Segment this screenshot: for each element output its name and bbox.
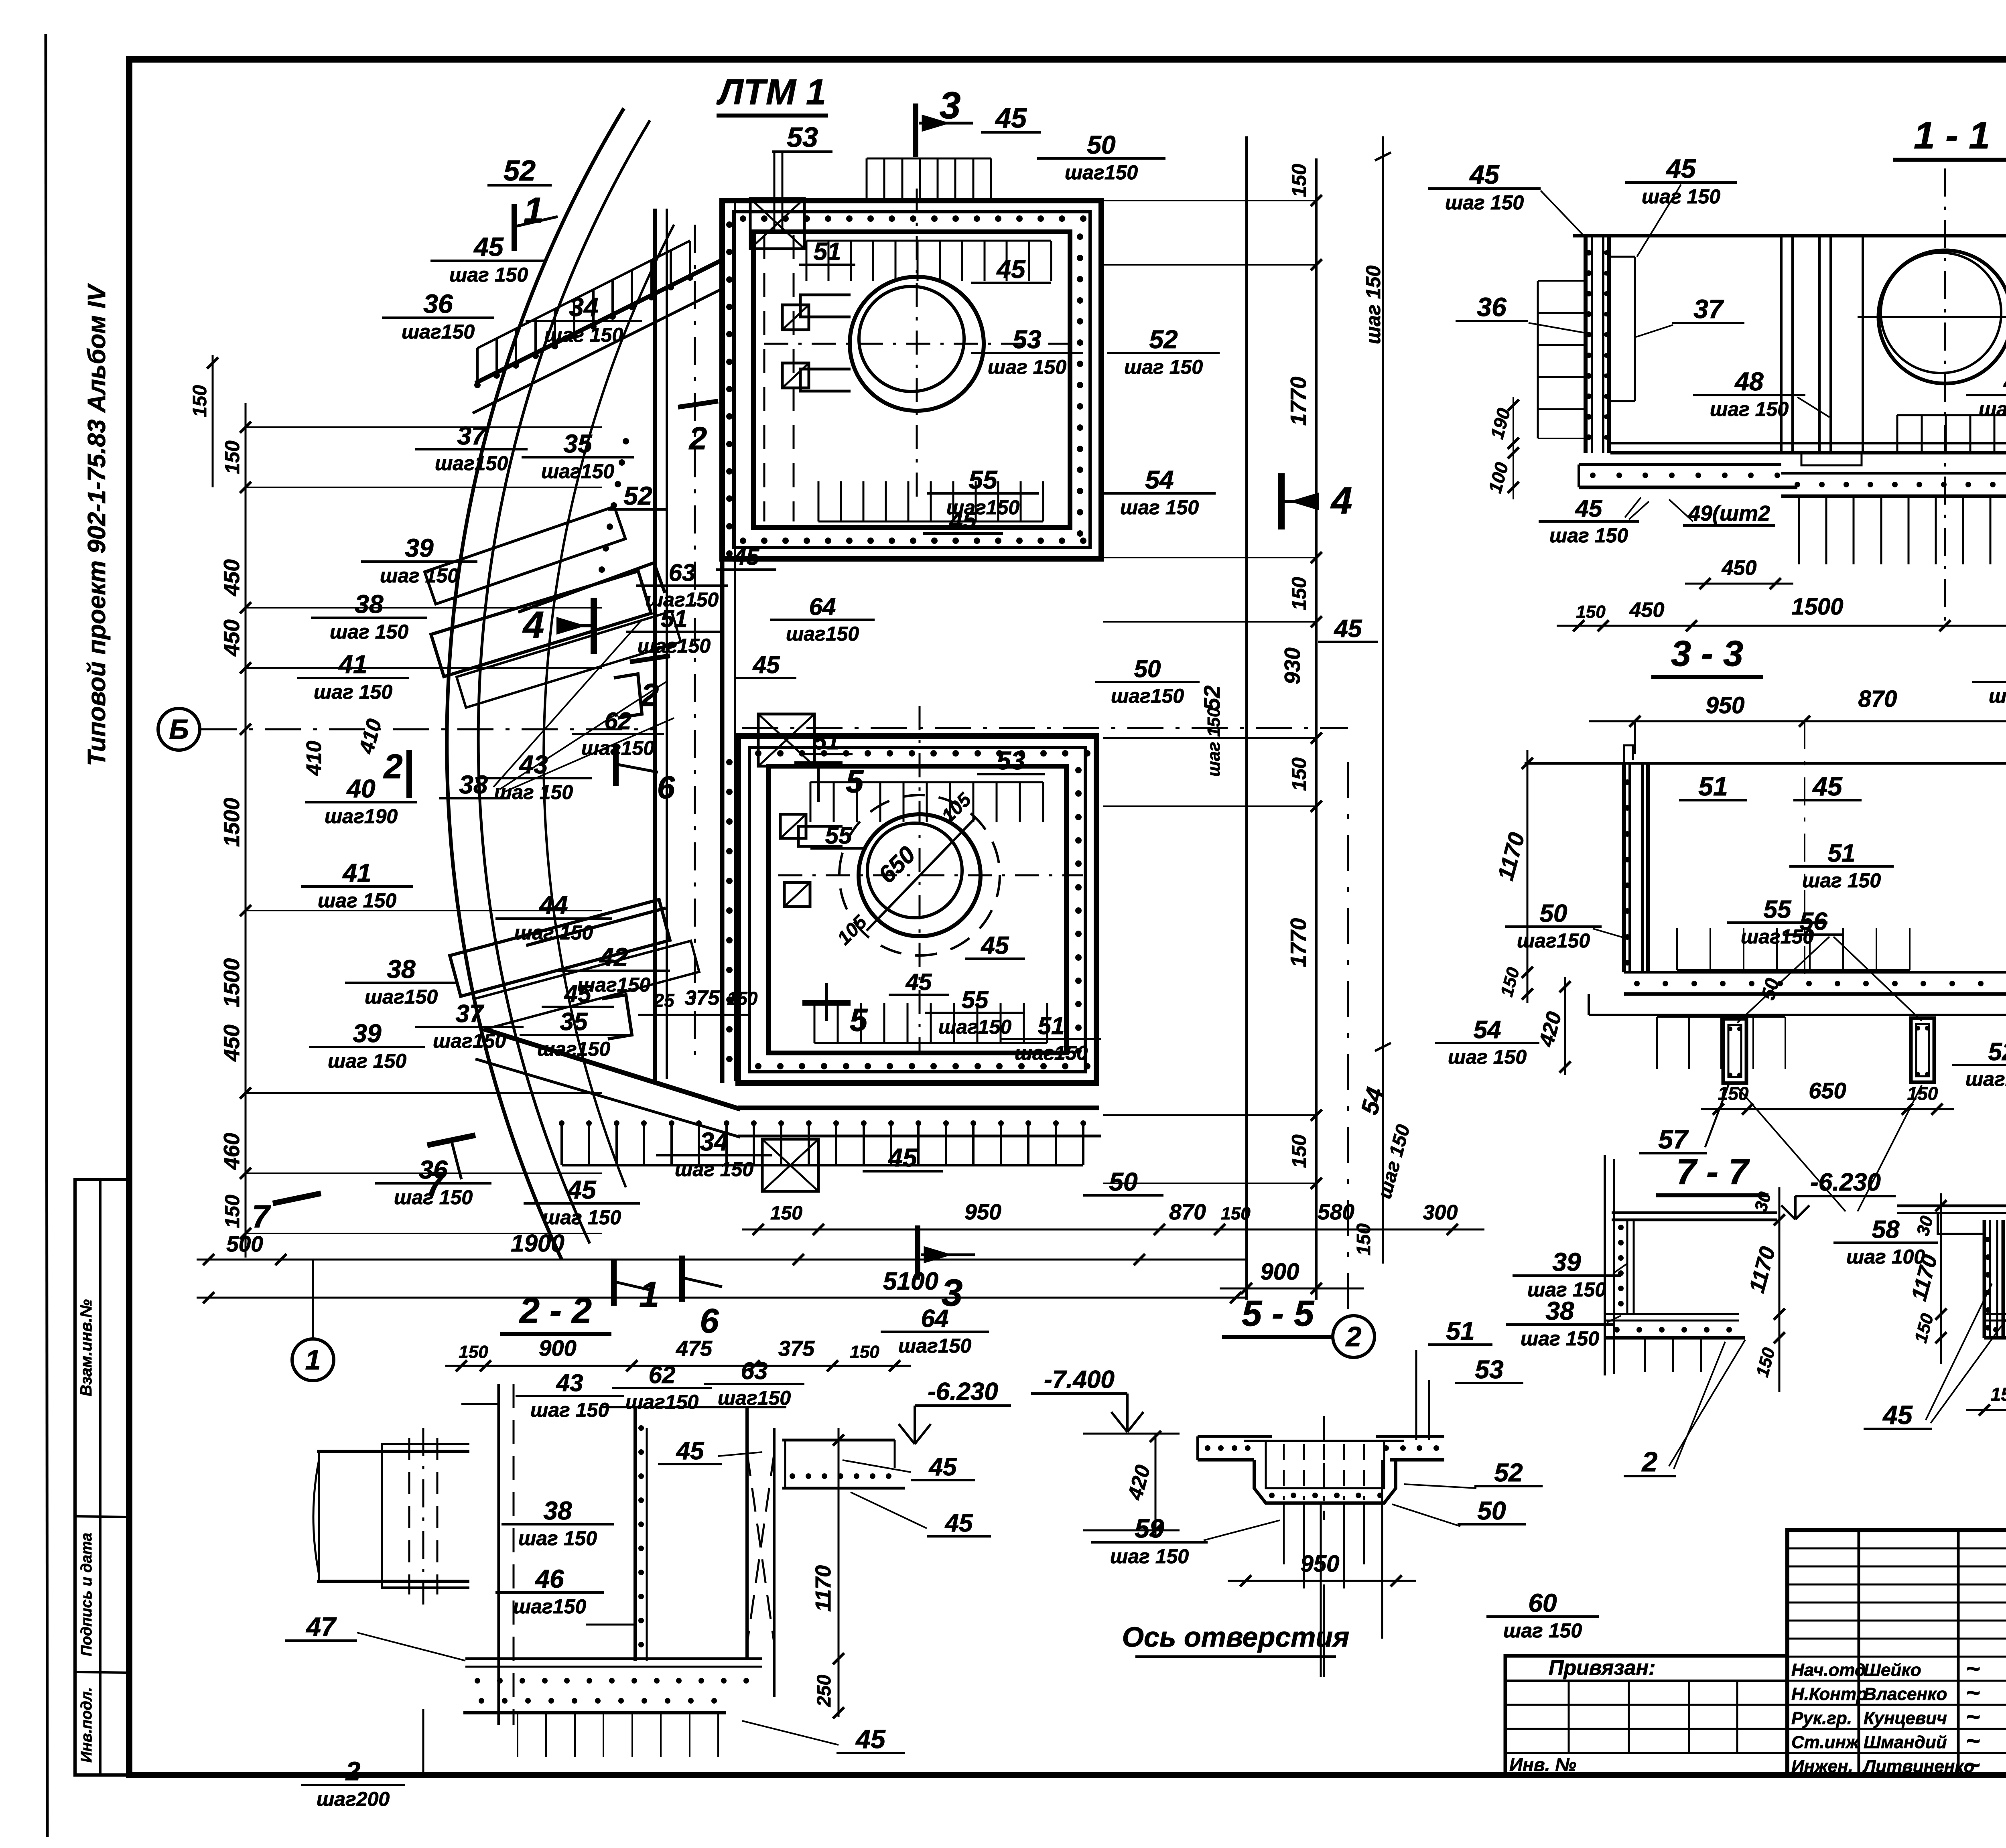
svg-text:150: 150 — [770, 1203, 802, 1224]
section 3-3 bottom slab — [1624, 971, 2006, 974]
svg-text:43: 43 — [518, 750, 548, 779]
plan label 45 upper left — [430, 232, 547, 286]
title block middle table verticals — [1858, 1530, 1860, 1776]
plan label 55 mid — [927, 465, 1039, 519]
section mark 6 mid — [613, 744, 619, 786]
svg-text:410: 410 — [303, 741, 326, 776]
svg-text:45: 45 — [944, 1509, 973, 1537]
svg-text:шаг 150: шаг 150 — [1521, 1327, 1599, 1350]
left dim chain vertical — [245, 403, 247, 1258]
svg-text:45: 45 — [1469, 160, 1500, 189]
plan bottom comb — [562, 1164, 1083, 1166]
plan label 34 bottom — [656, 1127, 772, 1181]
lower chamber diameter 650 line — [867, 818, 975, 931]
svg-text:47: 47 — [2003, 367, 2006, 396]
svg-text:шаг150: шаг150 — [1965, 1068, 2006, 1090]
svg-text:шаг 150: шаг 150 — [1642, 185, 1720, 208]
section 1-1 bottom comb — [1799, 495, 2006, 497]
lower chamber embedded plate 1 — [780, 814, 806, 838]
plan bottom dim chain small — [742, 1229, 1484, 1231]
svg-text:5 - 5: 5 - 5 — [1242, 1294, 1315, 1334]
svg-text:53: 53 — [997, 746, 1025, 775]
svg-text:52: 52 — [623, 481, 652, 510]
svg-text:38: 38 — [355, 590, 384, 619]
svg-text:1500: 1500 — [1791, 594, 1843, 620]
svg-text:6: 6 — [700, 1302, 719, 1340]
svg-text:38: 38 — [387, 955, 416, 984]
lower chamber dashed circle — [839, 795, 1000, 955]
corridor wall dots — [726, 221, 733, 228]
svg-text:шаг 150: шаг 150 — [1362, 266, 1385, 344]
svg-text:46: 46 — [534, 1564, 564, 1593]
slanted wall piece 44 lower — [450, 895, 699, 1033]
plan label 35 left — [522, 429, 634, 483]
svg-text:36: 36 — [1477, 292, 1507, 322]
section mark 2 top — [678, 401, 718, 407]
svg-text:45: 45 — [1334, 615, 1362, 643]
svg-text:150: 150 — [1221, 1204, 1251, 1223]
upper chamber wall line 2 — [733, 212, 1090, 548]
svg-text:500: 500 — [226, 1231, 263, 1256]
section 2-2 top right box — [782, 1439, 895, 1442]
plan label 41 left — [297, 650, 409, 703]
svg-text:25: 25 — [653, 990, 675, 1011]
plan label 52 right — [1107, 325, 1220, 378]
svg-text:~: ~ — [1966, 1703, 1980, 1730]
svg-text:45: 45 — [995, 102, 1027, 134]
svg-text:~: ~ — [1966, 1751, 1980, 1778]
section 3-3 bottom combs — [1677, 969, 1910, 971]
svg-text:1 - 1: 1 - 1 — [1914, 114, 1990, 157]
section 1-1 label 45 шаг150 top far left — [1428, 160, 1541, 214]
curved wall inner arc 2 — [544, 225, 674, 1187]
svg-text:54: 54 — [1145, 465, 1174, 494]
svg-text:900: 900 — [539, 1335, 576, 1361]
section 1-1 bottom slab — [1610, 442, 2006, 444]
svg-text:Шмандий: Шмандий — [1864, 1732, 1947, 1752]
svg-text:шаг190: шаг190 — [325, 805, 398, 828]
svg-text:шаг 150: шаг 150 — [1448, 1046, 1527, 1068]
section 3-3 label 57 — [1639, 1124, 1707, 1154]
svg-text:870: 870 — [1858, 686, 1897, 712]
upper chamber pipe opening inner circle — [859, 286, 964, 392]
plan label 45 top — [981, 102, 1041, 134]
plan label 45 bottom mid — [863, 1143, 943, 1172]
svg-text:34: 34 — [569, 292, 598, 322]
axis Б centerline — [201, 728, 654, 730]
svg-text:53: 53 — [1013, 325, 1041, 354]
lower chamber niche — [798, 826, 843, 846]
section 1-1 label 48 — [1693, 367, 1805, 420]
section 3-3 label 52 — [1952, 1038, 2006, 1090]
svg-text:51: 51 — [661, 605, 688, 632]
axis line 2 dash — [1347, 762, 1349, 1316]
section mark 1 bottom — [611, 1260, 617, 1306]
svg-text:40: 40 — [346, 774, 375, 803]
svg-text:шаг150: шаг150 — [513, 1595, 587, 1618]
svg-text:45: 45 — [564, 980, 592, 1007]
svg-text:2: 2 — [1345, 1321, 1362, 1352]
plan label 38 mid — [439, 770, 508, 799]
svg-text:шаг 150: шаг 150 — [1445, 191, 1524, 214]
svg-text:950: 950 — [964, 1199, 1001, 1224]
upper chamber wall dots — [740, 215, 746, 222]
svg-text:шаг 150: шаг 150 — [1979, 398, 2006, 420]
svg-text:шаг 150: шаг 150 — [1549, 524, 1628, 547]
svg-text:450: 450 — [219, 619, 244, 657]
svg-text:45: 45 — [906, 969, 932, 995]
svg-text:шаг150: шаг150 — [898, 1335, 972, 1357]
section 2-2 bottom slab — [465, 1657, 762, 1660]
section mark 1 topleft — [512, 204, 517, 251]
plan label 51 upper — [799, 238, 855, 266]
section 1-1 base slab center — [1781, 472, 2006, 475]
upper chamber embedded plate 2 — [782, 363, 809, 388]
plan label 51 bottom right — [1001, 1012, 1101, 1064]
svg-text:3 - 3: 3 - 3 — [1671, 634, 1743, 674]
svg-text:580: 580 — [1318, 1199, 1354, 1224]
svg-text:43: 43 — [556, 1369, 583, 1396]
corridor left wall — [653, 209, 657, 1083]
plan label 52 62 63 64 column — [636, 559, 728, 611]
svg-text:48: 48 — [1734, 367, 1764, 396]
section 7-7 right dims — [1779, 1187, 1781, 1392]
svg-text:ЛТМ 1: ЛТМ 1 — [716, 72, 826, 112]
section 1-1 left inner step lines — [1634, 257, 1636, 401]
svg-text:шаг150: шаг150 — [541, 460, 615, 483]
section 2-2 pipe dashed lines — [408, 1438, 410, 1594]
svg-text:150: 150 — [459, 1342, 488, 1362]
svg-text:4: 4 — [1330, 479, 1352, 522]
section 5-5 left dim 420 — [1155, 1434, 1157, 1536]
svg-text:Ст.инж: Ст.инж — [1791, 1732, 1860, 1752]
plan bottom dim 5100 — [197, 1297, 1248, 1299]
svg-text:950: 950 — [1301, 1551, 1340, 1577]
section 2-2 wall mid — [633, 1407, 637, 1661]
section 3-3 base extension — [1589, 1014, 2006, 1016]
title block signature rows — [1787, 1680, 2006, 1682]
slanted wall piece upper2 — [424, 507, 625, 604]
section mark 2 low — [630, 656, 670, 662]
upper chamber pipe opening outer circle — [850, 277, 984, 411]
axis Б circle — [158, 708, 200, 750]
plan bottom wall band — [483, 1029, 740, 1109]
lower chamber corner box cross — [762, 1139, 818, 1191]
svg-text:150: 150 — [1288, 757, 1310, 791]
upper chamber rebar comb top inside — [806, 240, 1051, 242]
plan label 36 left — [382, 289, 494, 343]
mid band corner box with cross — [758, 714, 814, 766]
svg-text:шаг150: шаг150 — [786, 623, 859, 645]
lower chamber pipe inner circle — [867, 823, 962, 918]
svg-text:37: 37 — [457, 421, 487, 450]
svg-text:шаг 150: шаг 150 — [1204, 707, 1224, 777]
svg-text:51: 51 — [814, 238, 841, 266]
section 2-2 mid ledge — [586, 1624, 635, 1626]
svg-text:62: 62 — [605, 708, 631, 734]
section 2-2 wall right with X brace — [745, 1407, 749, 1659]
svg-text:51: 51 — [1038, 1012, 1065, 1039]
svg-text:шаг150: шаг150 — [365, 986, 438, 1008]
plan right extension lines — [1103, 200, 1316, 201]
plan label 45 mid — [971, 255, 1051, 284]
svg-text:52: 52 — [1494, 1458, 1523, 1487]
section 5-5 top slabs — [1198, 1435, 1272, 1438]
svg-text:шаг150: шаг150 — [1065, 161, 1138, 184]
svg-text:930: 930 — [1280, 647, 1305, 684]
svg-text:63: 63 — [741, 1357, 768, 1384]
svg-text:45: 45 — [566, 1175, 597, 1204]
plan label 52 top — [487, 155, 552, 187]
svg-text:650: 650 — [1809, 1078, 1846, 1103]
axis 2 circle — [1333, 1316, 1375, 1357]
section 1-1 top slab line — [1573, 234, 2006, 237]
plan label 42 — [558, 943, 670, 996]
svg-text:Привязан:: Привязан: — [1549, 1656, 1655, 1680]
plan label 53 mid — [971, 325, 1083, 378]
svg-text:2 - 2: 2 - 2 — [519, 1291, 592, 1331]
plan dims 25 375 150 — [638, 1014, 750, 1016]
svg-text:150: 150 — [1288, 164, 1310, 197]
section 3-3 label 56 — [1783, 908, 1844, 935]
svg-text:300: 300 — [1423, 1201, 1458, 1224]
svg-text:38: 38 — [1545, 1296, 1574, 1325]
section 1-1 label 45 шаг150 top — [1625, 154, 1737, 208]
section 3-3 label 50 left — [1505, 900, 1602, 952]
section 2-2 label 45 bottom — [837, 1724, 905, 1754]
section 3-3 label 54 — [1435, 1016, 1539, 1068]
section 1-1 base slab left — [1579, 463, 1781, 466]
upper-left dim chain 150 450 450 — [212, 355, 214, 487]
title block outline — [1787, 1530, 2006, 1776]
section 3-3 stirrup box 1 — [1723, 1019, 1746, 1083]
svg-text:шаг 150: шаг 150 — [988, 356, 1066, 378]
svg-text:7: 7 — [252, 1199, 271, 1234]
svg-text:1770: 1770 — [1286, 376, 1311, 426]
svg-text:56: 56 — [1800, 908, 1827, 935]
svg-text:51: 51 — [1828, 840, 1856, 867]
section 3-3 label 51 шаг150 — [1789, 840, 1894, 892]
svg-text:150: 150 — [850, 1342, 879, 1362]
section 2-2 label 47 — [285, 1612, 357, 1641]
svg-text:45: 45 — [949, 507, 977, 534]
small channel piece mid2 — [602, 995, 632, 1039]
svg-text:150: 150 — [189, 385, 211, 417]
svg-text:150: 150 — [1353, 1223, 1375, 1256]
svg-text:шаг 150: шаг 150 — [1110, 1545, 1189, 1568]
svg-text:52: 52 — [504, 155, 536, 187]
lower chamber inner wall — [768, 766, 1066, 1053]
svg-text:49(шт2: 49(шт2 — [1688, 501, 1770, 525]
svg-text:55: 55 — [825, 822, 853, 849]
section 5-5 label 60 — [1486, 1588, 1599, 1642]
plan label 45 mid2 — [889, 969, 949, 995]
svg-text:шаг 150: шаг 150 — [544, 324, 623, 346]
section 6-6 left step wall — [1938, 1213, 1984, 1234]
svg-text:36: 36 — [419, 1155, 448, 1184]
svg-text:2: 2 — [1641, 1446, 1658, 1477]
svg-text:150: 150 — [1576, 602, 1606, 622]
svg-text:45: 45 — [733, 544, 759, 570]
plan label 39 lower — [309, 1019, 425, 1072]
section 2-2 labels 43 62 63 64 — [516, 1369, 624, 1421]
plan label 52 mid — [608, 481, 668, 510]
plan label 50 right top — [1095, 655, 1200, 707]
svg-text:45: 45 — [996, 255, 1026, 284]
svg-text:38: 38 — [543, 1496, 572, 1525]
svg-text:475: 475 — [676, 1337, 713, 1361]
axis 1 circle — [292, 1339, 334, 1381]
lower chamber wall line2 — [749, 747, 1085, 1072]
plan label 36 bottom — [375, 1155, 491, 1209]
svg-text:шаг150: шаг150 — [938, 1016, 1012, 1038]
svg-text:6: 6 — [657, 769, 675, 805]
svg-text:38: 38 — [459, 770, 488, 799]
svg-text:50: 50 — [1540, 900, 1567, 927]
lower chamber rebar comb bottom — [814, 1042, 1047, 1044]
curved wall inner arc — [478, 120, 650, 1243]
lower chamber embedded plate 2 — [784, 882, 810, 907]
svg-text:шаг150: шаг150 — [1111, 685, 1184, 707]
svg-text:4: 4 — [522, 604, 544, 646]
plan label 35 lower — [520, 1008, 628, 1060]
plan left wall hatch dots upper — [623, 438, 629, 444]
svg-text:шаг150: шаг150 — [638, 635, 711, 657]
plan label 53 top — [772, 122, 832, 153]
svg-text:шаг 150: шаг 150 — [494, 781, 573, 803]
svg-text:41: 41 — [342, 858, 371, 887]
section 7-7 bottom slab — [1605, 1313, 1739, 1315]
slanted hook piece bottom — [526, 908, 666, 945]
section mark 4 right — [1278, 473, 1285, 529]
lower chamber outer wall — [738, 736, 1096, 1083]
upper chamber inner wall — [753, 232, 1070, 527]
section mark 6 bottom — [679, 1256, 685, 1302]
lower chamber wall dots — [755, 750, 761, 757]
plan bottom dim chain 1 — [197, 1259, 1248, 1261]
section 1-1 comb under circle — [1897, 414, 2006, 416]
section 1-1 dim 450 sub left — [1685, 583, 1793, 585]
svg-text:39: 39 — [353, 1019, 382, 1048]
plan right dim chain lines — [1245, 136, 1248, 1300]
svg-text:41: 41 — [338, 650, 367, 679]
svg-text:35: 35 — [563, 429, 593, 458]
svg-text:5: 5 — [846, 763, 864, 799]
svg-text:шаг 150: шаг 150 — [314, 681, 392, 703]
svg-text:1770: 1770 — [1286, 918, 1311, 967]
svg-text:шаг 150: шаг 150 — [1124, 356, 1203, 378]
svg-text:шаг 150: шаг 150 — [330, 621, 408, 643]
svg-text:1: 1 — [305, 1344, 321, 1375]
svg-text:шаг 150: шаг 150 — [514, 921, 593, 944]
section 1-1 pipe circle — [1878, 250, 2006, 383]
section 6-6 top line — [1897, 1205, 2006, 1207]
svg-text:3: 3 — [940, 84, 961, 127]
svg-text:шаг 150: шаг 150 — [394, 1186, 473, 1209]
plan label 34 — [526, 292, 642, 346]
section 6-6 bottom slab — [1984, 1313, 2006, 1315]
left margin stamp strip — [75, 1179, 128, 1775]
svg-text:55: 55 — [968, 465, 998, 494]
svg-text:45: 45 — [887, 1143, 918, 1172]
svg-text:45: 45 — [1812, 771, 1843, 801]
svg-text:57: 57 — [1658, 1124, 1689, 1154]
svg-text:450: 450 — [1629, 598, 1665, 622]
section 2-2 label 2 шаг200 — [301, 1756, 405, 1810]
plan label 45 corridor — [716, 544, 776, 570]
svg-text:шаг150: шаг150 — [1517, 929, 1590, 952]
plan top-left wall band — [475, 260, 722, 383]
svg-text:62: 62 — [649, 1361, 676, 1388]
lower chamber rebar comb top — [810, 781, 1043, 783]
svg-text:42: 42 — [599, 943, 628, 972]
section mark 5 lower — [802, 1000, 851, 1006]
section 2-2 labels 45 — [658, 1437, 722, 1465]
svg-text:шаг200: шаг200 — [317, 1788, 390, 1810]
svg-text:58: 58 — [1872, 1216, 1900, 1243]
section 3-3 label 55 шаг150 — [1727, 896, 1827, 948]
section 2-2 pipe cylinder — [317, 1450, 469, 1453]
svg-text:Типовой проект 902-1-75.83 Ал: Типовой проект 902-1-75.83 Альбом IV — [83, 283, 111, 766]
svg-text:45: 45 — [855, 1724, 886, 1754]
title block privyazan box — [1505, 1656, 1787, 1776]
title block empty grid rows — [1787, 1548, 2006, 1550]
svg-text:900: 900 — [1261, 1259, 1299, 1285]
svg-text:Н.Контр: Н.Контр — [1791, 1684, 1867, 1704]
svg-text:45: 45 — [676, 1437, 705, 1465]
svg-text:150: 150 — [1288, 1134, 1310, 1168]
svg-text:950: 950 — [1706, 692, 1745, 718]
plan label 45 low mid — [923, 507, 1003, 534]
svg-text:шаг 150: шаг 150 — [542, 1206, 621, 1229]
section 6-6 bottom dims — [1966, 1409, 2006, 1411]
plan label 50 bottom — [1083, 1167, 1163, 1196]
svg-text:Инжен.: Инжен. — [1791, 1757, 1853, 1776]
svg-text:Кунцевич: Кунцевич — [1864, 1708, 1947, 1728]
plan bottom dim 900 — [1220, 1288, 1364, 1290]
section mark 3 top — [913, 103, 918, 157]
svg-text:шаг 150: шаг 150 — [318, 889, 396, 912]
section 1-1 pipe centerline — [1944, 168, 1946, 626]
section 6-6 label 45 left — [1864, 1400, 1932, 1430]
section 7-7 label 2 — [1624, 1446, 1676, 1477]
svg-text:150: 150 — [1991, 1384, 2006, 1405]
svg-text:45: 45 — [753, 651, 780, 678]
section 7-7 labels — [1513, 1248, 1621, 1301]
svg-text:1900: 1900 — [511, 1230, 564, 1257]
svg-text:51: 51 — [1698, 771, 1728, 801]
svg-text:Литвиненко: Литвиненко — [1862, 1757, 1974, 1776]
svg-text:шаг 150: шаг 150 — [530, 1399, 609, 1421]
section 3-3 stirrup box 2 — [1911, 1018, 1934, 1082]
upper chamber niche left — [800, 295, 851, 317]
svg-text:шаг 150: шаг 150 — [1710, 398, 1789, 420]
svg-text:шаг 150: шаг 150 — [675, 1158, 753, 1181]
svg-text:150: 150 — [1718, 1083, 1749, 1104]
section 5-5 label 59 — [1091, 1513, 1208, 1568]
svg-text:Инв. №: Инв. № — [1509, 1754, 1576, 1775]
section 6-6 left dims — [1940, 1193, 1942, 1364]
svg-text:150: 150 — [1288, 577, 1310, 611]
svg-text:шаг150: шаг150 — [537, 1038, 611, 1060]
section 2-2 label 46 — [495, 1564, 604, 1618]
plan label 44 — [495, 891, 612, 944]
svg-text:45: 45 — [928, 1453, 957, 1481]
section 2-2 mid structure — [602, 1406, 786, 1408]
section mark 7 low — [273, 1193, 321, 1203]
svg-text:2: 2 — [688, 420, 707, 456]
svg-text:52: 52 — [1988, 1038, 2006, 1066]
